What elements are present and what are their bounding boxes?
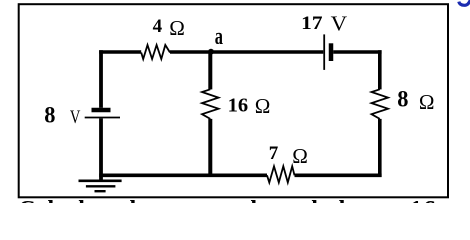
wire top right (17V battery to top-right corner) bbox=[333, 50, 381, 54]
wire right lower (R 8Ω down to bottom-right corner) bbox=[378, 119, 382, 177]
wire middle upper (node a down to R 16Ω) bbox=[208, 52, 212, 89]
ground bbox=[79, 181, 122, 191]
svg-text:8: 8 bbox=[397, 86, 408, 111]
label 7 Ω bbox=[269, 143, 308, 168]
svg-text:Ω: Ω bbox=[419, 90, 435, 114]
svg-text:16: 16 bbox=[228, 95, 249, 117]
wire right upper (top-right corner down to R 8Ω) bbox=[378, 50, 382, 89]
resistor 16Ω (middle) bbox=[202, 89, 219, 119]
svg-text:16: 16 bbox=[409, 195, 436, 203]
battery 8V (thick short plate) bbox=[92, 108, 111, 112]
svg-text:V: V bbox=[331, 12, 348, 36]
wire middle lower (R 16Ω down to bottom wire) bbox=[208, 119, 212, 177]
caption text (cut off at bottom): Calculate the current through the 16 bbox=[18, 195, 436, 225]
label 4 Ω bbox=[153, 16, 185, 40]
wire top-left (top wire from left corner to R 4Ω) bbox=[99, 50, 141, 54]
label 8 V bbox=[44, 102, 80, 128]
decorative partial glyph top-right (cut off) bbox=[459, 0, 470, 5]
node a (junction dot) bbox=[208, 49, 214, 55]
label 8 Ω (right) bbox=[397, 86, 434, 114]
wire bottom right (bottom-right corner to R 7Ω) bbox=[295, 174, 382, 178]
resistor 8Ω (right) bbox=[372, 89, 389, 119]
battery 8V (thin long plate) bbox=[85, 117, 120, 119]
label 17 V bbox=[301, 12, 347, 36]
resistor 7Ω (bottom) bbox=[267, 166, 295, 182]
svg-text:Calculate the current through: Calculate the current through the bbox=[18, 197, 363, 203]
wire left lower (8V battery down to ground) bbox=[99, 118, 103, 179]
wire bottom left (R 7Ω to left branch junction) bbox=[99, 174, 267, 178]
battery 17V (thick short plate) bbox=[329, 43, 334, 61]
svg-text:4: 4 bbox=[153, 16, 163, 37]
wire top middle (R 4Ω to node a to 17V battery) bbox=[170, 50, 323, 54]
wire left upper (left corner down to 8V battery) bbox=[99, 50, 103, 108]
svg-text:a: a bbox=[215, 24, 223, 50]
battery 17V (thin long plate) bbox=[323, 34, 325, 70]
resistor 4Ω (top) bbox=[141, 45, 170, 59]
svg-text:Ω: Ω bbox=[169, 16, 185, 40]
svg-text:Ω: Ω bbox=[255, 94, 271, 118]
label 16 Ω bbox=[228, 94, 271, 118]
svg-text:Ω: Ω bbox=[292, 144, 308, 168]
svg-text:8: 8 bbox=[44, 102, 55, 127]
svg-text:17: 17 bbox=[301, 13, 323, 34]
svg-text:7: 7 bbox=[269, 143, 279, 164]
svg-text:V: V bbox=[70, 107, 81, 128]
